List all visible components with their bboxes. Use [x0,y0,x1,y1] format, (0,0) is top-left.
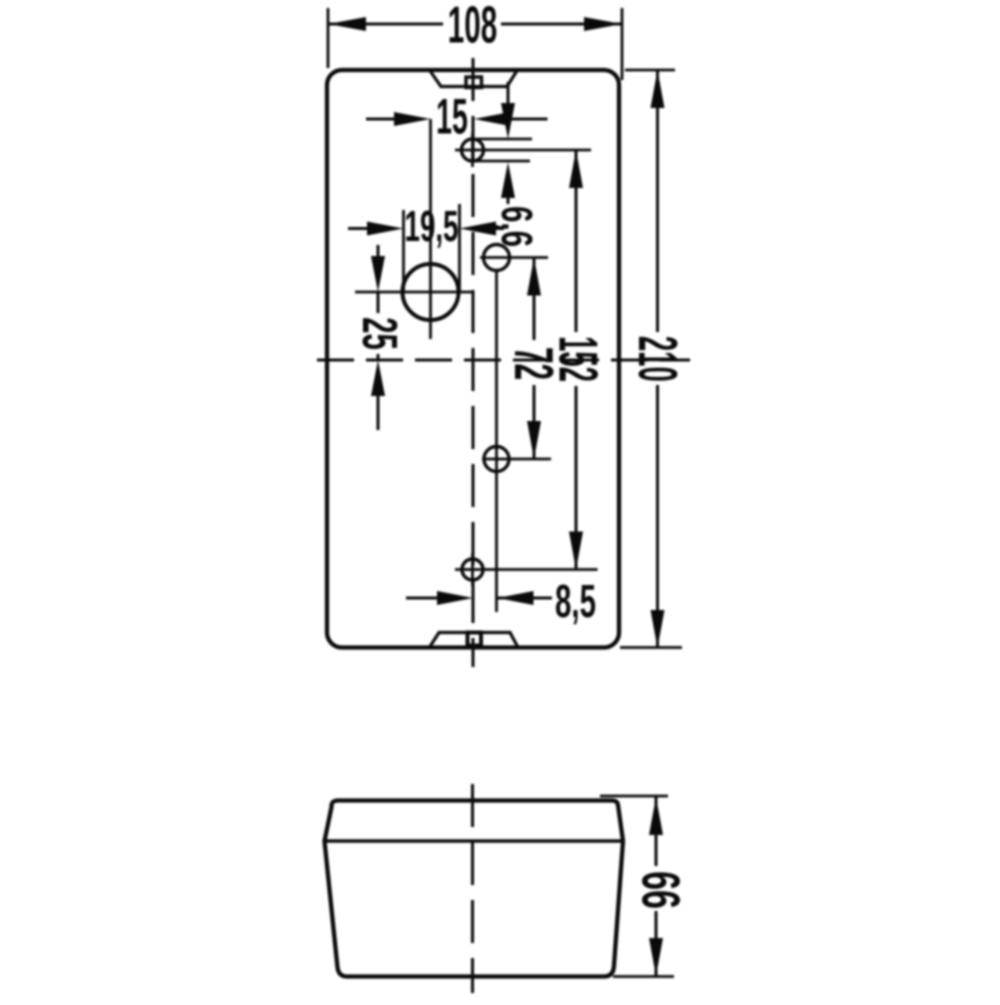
big hole horizontal centerline [355,291,473,294]
dim 108 arrow right [584,17,622,31]
hole mid-right centerline [482,458,551,461]
dim 6.6 top leader [507,82,510,112]
hole bottom [462,559,483,580]
svg-text:25: 25 [352,317,408,350]
hole mid-right [484,447,509,472]
dim 6.6 arrow up [501,162,515,198]
dim 15 left tail [366,118,400,121]
dim 72 arrow down [527,421,541,459]
top notch square [466,77,482,88]
dim 25 arrow down [371,256,385,292]
dim 152 line [575,150,578,332]
dim 8.5 left tail [406,597,440,600]
dim 25 bottom leader [377,390,380,430]
dim 108 line [328,23,443,26]
svg-text:66: 66 [631,871,692,909]
dim 15 arrow right [474,112,510,126]
dim 210 extension bottom [620,646,682,649]
dim 19.5 arrow left [367,222,404,236]
hole top (6.6) [462,139,484,161]
dim 15 right tail [505,118,548,121]
dim 210 arrow bottom [651,610,665,648]
dim 25 arrow up [371,360,385,396]
dim 66 arrow up [649,797,663,835]
dim 19.5 left tail [348,227,372,230]
dim 8.5 arrow left-pointing [498,591,534,605]
bottom notch tab [430,633,518,647]
svg-text:210: 210 [626,336,687,382]
dim 72 line [533,258,536,341]
dim 72 arrow up [527,258,541,296]
svg-text:19,5: 19,5 [405,202,459,251]
bottom view centerline [471,784,474,993]
hole bottom centerline [455,568,598,571]
dim 19.5 arrow right [460,222,497,236]
dim 15 arrow left [394,112,431,126]
dim 210 arrow top [651,70,665,108]
axis line through right holes [495,270,498,612]
dim 8.5 right tail [498,597,553,600]
dim 108 extension left [327,8,330,68]
vertical centerline [472,58,475,667]
housing outline bottom view [325,801,624,977]
dia 19.5 right tangent [458,204,461,291]
svg-text:6,6: 6,6 [493,206,542,247]
housing outline front view [327,70,619,648]
horizontal centerline [317,359,690,362]
dim 66 extension top [600,795,668,798]
dia 19.5 left tangent [402,210,405,291]
dim 19.5 right tail [490,227,504,230]
top notch tab [431,72,517,87]
svg-text:152: 152 [547,336,608,382]
dim 210 extension top [625,69,675,72]
dim 66 line [655,797,658,866]
hole upper-right [484,245,510,271]
hole top centerline [455,149,591,152]
tangent line upper [477,138,532,141]
dim 108 arrow left [328,17,366,31]
dim 108 extension right [621,8,624,80]
dim 25 top leader [377,245,380,262]
lens seam line [325,839,624,843]
dim 66 extension bottom [613,975,674,978]
big hole [403,264,459,320]
big hole vertical centerline [429,119,432,339]
dim 6.6 arrow down [501,103,515,139]
hole upper-right centerline [480,256,548,259]
tangent line lower [475,160,530,163]
hole bottom vertical tick [471,553,474,586]
dim 25 mid segment [377,292,380,313]
dim 210 line [656,70,659,332]
hole top vertical tick [471,133,474,167]
bottom notch square [468,633,482,646]
svg-text:108: 108 [448,0,497,54]
dim 152 arrow down [569,532,583,570]
dim 6.6 bottom leader [507,188,510,204]
dim 66 arrow down [649,938,663,976]
svg-text:15: 15 [436,88,468,145]
dim 152 arrow up [569,150,583,188]
dim 8.5 arrow right-pointing [437,591,473,605]
svg-text:8,5: 8,5 [555,577,596,628]
